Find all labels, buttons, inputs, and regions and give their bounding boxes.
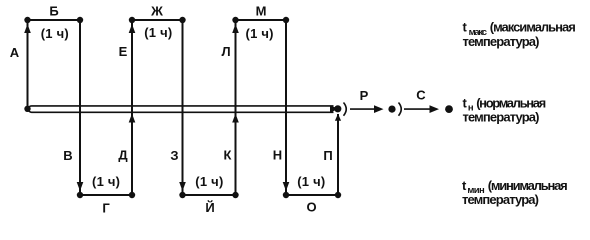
svg-text:Г: Г [102,201,110,216]
arrowhead taper at end of capsule [330,105,339,112]
svg-text:С: С [416,88,426,103]
svg-text:Н: Н [273,148,282,163]
arrowhead right at end of С segment [430,105,440,113]
wire: vertical П line x=338 (min to normal) [337,114,339,195]
svg-text:З: З [170,148,178,163]
node: dot end of Р segment [388,106,395,113]
wire: Р segment line [350,108,377,110]
svg-text:П: П [323,148,332,163]
node: dot bottom left of Г [77,192,83,198]
wire: vertical К-Л line x=235.5 (min to max) [235,20,237,195]
node: dot top right of Ж [179,17,185,23]
wire: bottom segment Й (hold at min) [183,194,236,196]
node: dot start of А on normal line [24,106,30,112]
svg-text:(1 ч): (1 ч) [195,174,223,189]
wire: top segment Б (hold at max) [28,19,81,21]
node: dot bottom left of Й [179,192,185,198]
arrowhead down on З line [179,182,186,191]
svg-text:Й: Й [205,200,214,215]
arrowhead up on П line below normal line [335,114,341,121]
svg-text:(1 ч): (1 ч) [246,26,274,41]
wire: bottom segment О (hold at min) [286,194,338,196]
wire: break symbol after Р [399,103,402,116]
wire: middle normal-temperature capsule outline [28,106,333,112]
svg-text:Д: Д [118,148,128,163]
arrowhead up on Д line below normal line [129,114,136,123]
svg-text:температура): температура) [463,34,540,49]
node: dot bottom right of Г [129,192,135,198]
svg-text:О: О [306,200,316,215]
wire: vertical А line x=27 (normal to max) [27,20,29,109]
svg-text:(нормальная: (нормальная [476,95,546,110]
node: dot top left of Ж [129,17,135,23]
wire: vertical В line x=80 (max to min) [79,20,81,195]
wire: top segment М (hold at max) [236,19,287,21]
node: dot end of С segment [445,105,453,113]
wire: top segment Ж (hold at max) [132,19,183,21]
arrowhead up on Е line below max line [129,24,136,33]
svg-text:температура): температура) [462,192,539,207]
svg-text:температура): температура) [463,109,540,124]
wire: vertical Н line x=286 (max to min) [285,20,287,195]
node: dot bottom left of О [283,192,289,198]
wire: break symbol after capsule [344,103,347,116]
svg-text:t: t [463,95,468,110]
svg-text:А: А [10,45,20,60]
svg-text:Л: Л [221,44,230,59]
wire: С segment line [404,108,431,110]
arrowhead down on Н line [283,182,290,191]
node: dot top left of Б [24,17,30,23]
arrowhead up on Л line below max line [232,24,239,33]
svg-text:(максимальная: (максимальная [490,20,576,35]
svg-text:t: t [463,20,468,35]
svg-text:(1 ч): (1 ч) [92,174,120,189]
wire: bottom segment Г (hold at min) [80,194,132,196]
svg-text:(1 ч): (1 ч) [297,174,325,189]
svg-text:Р: Р [360,88,369,103]
node: dot bottom right of Й [232,192,238,198]
arrowhead right at end of Р segment [374,105,384,113]
svg-text:К: К [224,148,232,163]
svg-text:(1 ч): (1 ч) [144,25,172,40]
svg-text:t: t [462,178,467,193]
svg-text:М: М [256,4,267,19]
svg-text:Ж: Ж [150,4,163,19]
arrowhead up on А line [24,24,31,33]
arrowhead up on К line below normal line [232,114,239,123]
node: dot top right of М [283,17,289,23]
node: dot bottom right of О [335,192,341,198]
node: dot top right of Б [77,17,83,23]
svg-text:(минимальная: (минимальная [488,178,568,193]
wire: vertical З line x=182.5 (max to min) [182,20,184,195]
wire: vertical Д-Е line x=132 (min to max) [131,20,133,195]
node: terminal dot at end of capsule [334,105,341,112]
node: dot top left of М [232,17,238,23]
svg-text:(1 ч): (1 ч) [41,26,69,41]
svg-text:В: В [63,148,72,163]
svg-text:Б: Б [49,4,58,19]
svg-text:Е: Е [119,44,128,59]
arrowhead down on В line [77,182,84,191]
